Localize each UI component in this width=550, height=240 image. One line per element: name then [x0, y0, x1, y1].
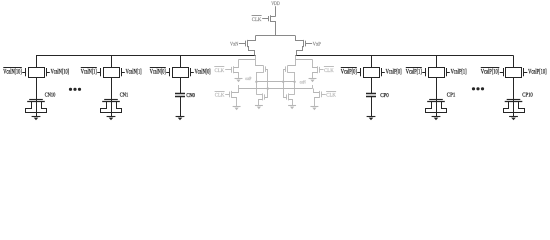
- label outP: [245, 76, 251, 82]
- transistor M0 (PMOS tail, gate CLKb): [262, 15, 276, 22]
- svg-text:VcalN[0]: VcalN[0]: [150, 68, 166, 75]
- wire right calibration bus (node DiP): [295, 55, 513, 57]
- label CLKb (tail gate): [252, 16, 262, 24]
- MOS capacitor CN10: [26, 77, 47, 116]
- svg-text:VDD: VDD: [271, 1, 280, 7]
- ground under CP1: [432, 117, 441, 121]
- svg-text:CN10: CN10: [45, 93, 56, 99]
- ground under CN0: [176, 117, 185, 121]
- wire VDD to tail transistor: [275, 6, 277, 16]
- label VcalN[10]: [51, 68, 70, 75]
- wire cross-couple upper (outP): [256, 81, 294, 83]
- label /VcalP[0]: [341, 68, 357, 76]
- label VxN: [230, 41, 238, 47]
- svg-text:CLK: CLK: [252, 17, 262, 23]
- ground under CN1: [107, 117, 116, 121]
- label CP10: [522, 93, 533, 99]
- wire rail to M1 source: [248, 36, 256, 41]
- label VcalP[1]: [451, 68, 467, 75]
- wire left drain rail (outP): [256, 72, 258, 95]
- wire M1 drain to left bus: [248, 47, 255, 56]
- svg-text:CP10: CP10: [522, 93, 533, 99]
- wire tail drain to source rail: [275, 21, 277, 35]
- stub at SW4 drain: [312, 85, 314, 89]
- calibration switch cell SP1: [422, 56, 450, 78]
- MOS capacitor CP1: [426, 77, 447, 116]
- wire left node to reset switch SW1: [239, 59, 256, 61]
- transistor SW2 (reset, left lower): [225, 89, 238, 107]
- label CN0: [186, 93, 195, 99]
- ground under CP0: [367, 117, 376, 121]
- label VcalN[1]: [126, 68, 142, 75]
- circuit schematic: comparator with calibration capacitor banks: [0, 0, 550, 125]
- svg-text:VcalN[1]: VcalN[1]: [126, 68, 142, 75]
- wire M2 drain to right bus: [297, 47, 304, 56]
- svg-text:outN: outN: [300, 80, 307, 86]
- calibration switch cell SP0: [357, 56, 385, 78]
- wire right bus node down to latch: [288, 56, 296, 66]
- wire input-pair source rail: [256, 35, 296, 37]
- wire right gate line: [284, 70, 287, 98]
- svg-text:VcalN[1]: VcalN[1]: [81, 68, 97, 75]
- transistor M6 (latch NMOS right): [287, 93, 295, 105]
- ellipsis dots (more P cells): [472, 87, 484, 90]
- label /VcalN[1]: [81, 68, 97, 76]
- label /VcalN[0]: [150, 68, 166, 76]
- label CP1: [447, 93, 456, 99]
- transistor M5 (latch NMOS left): [256, 93, 264, 105]
- svg-text:CLK: CLK: [326, 93, 336, 99]
- svg-text:VcalP[10]: VcalP[10]: [528, 68, 547, 75]
- label /VcalN[10] (inverted control): [3, 68, 22, 76]
- wire right node to reset switch SW3: [296, 59, 313, 61]
- label /VcalP[1]: [406, 68, 422, 76]
- wire right drain rail (outN): [294, 72, 296, 95]
- label CLKb (SW4 gate): [326, 92, 336, 99]
- svg-text:VcalP[10]: VcalP[10]: [481, 68, 500, 75]
- MOS capacitor CN1: [101, 77, 122, 116]
- ground under CP10: [509, 117, 518, 121]
- svg-text:outP: outP: [245, 76, 251, 82]
- capacitor CP0: [366, 77, 376, 116]
- svg-text:VxN: VxN: [230, 41, 238, 47]
- ground under SW3: [309, 79, 317, 83]
- MOS capacitor CP10: [504, 77, 525, 116]
- transistor SW4 (reset, right lower): [314, 89, 326, 107]
- wire left calibration bus (node DiN): [36, 55, 256, 57]
- label VxP: [313, 41, 321, 47]
- label VcalN[0]: [195, 68, 211, 75]
- svg-text:CLK: CLK: [324, 68, 334, 74]
- power VDD label: [271, 1, 280, 7]
- calibration switch cell SN1: [97, 56, 125, 78]
- transistor M4 (latch PMOS right): [286, 66, 295, 73]
- label CLKb (SW2 gate): [215, 92, 225, 99]
- label /VcalP[10]: [481, 68, 500, 76]
- ground under M5: [255, 106, 263, 110]
- svg-text:CLK: CLK: [215, 93, 225, 99]
- ground under SW2: [233, 107, 241, 111]
- wire left gate line: [265, 70, 268, 98]
- svg-text:VcalP[1]: VcalP[1]: [406, 68, 422, 75]
- ground under SW4: [310, 107, 318, 111]
- label VcalP[0]: [386, 68, 402, 75]
- ellipsis dots (more N cells): [69, 88, 81, 91]
- svg-text:VcalN[10]: VcalN[10]: [51, 68, 70, 75]
- svg-text:VcalN[10]: VcalN[10]: [3, 68, 22, 75]
- transistor SW3 (reset, right upper): [313, 60, 324, 79]
- junction dots upper cross line: [255, 81, 296, 83]
- wire left bus node down to latch: [256, 56, 264, 66]
- calibration switch cell SN0: [166, 56, 194, 78]
- calibration switch cell SP10: [500, 56, 528, 78]
- transistor M2 (input, gate VxP): [304, 40, 313, 47]
- transistor M3 (latch PMOS left): [256, 66, 265, 73]
- svg-text:VxP: VxP: [313, 41, 321, 47]
- label CP0: [380, 93, 389, 99]
- junction dot lower cross line: [267, 87, 269, 89]
- svg-text:CP0: CP0: [380, 93, 389, 99]
- svg-text:VcalN[0]: VcalN[0]: [195, 68, 211, 75]
- svg-text:VcalP[1]: VcalP[1]: [451, 68, 467, 75]
- svg-text:CP1: CP1: [447, 93, 456, 99]
- svg-text:VcalP[0]: VcalP[0]: [341, 68, 357, 75]
- wire cross-couple lower (outN): [239, 88, 313, 90]
- label CN1: [120, 93, 129, 99]
- svg-text:CN0: CN0: [186, 93, 195, 99]
- svg-text:CN1: CN1: [120, 93, 129, 99]
- svg-text:VcalP[0]: VcalP[0]: [386, 68, 402, 75]
- transistor SW1 (reset, left upper): [225, 60, 238, 79]
- label CLKb (SW3 gate): [324, 67, 334, 74]
- stub at SW2 drain: [238, 85, 240, 89]
- calibration switch cell SN10: [22, 56, 50, 78]
- capacitor CN0: [175, 77, 185, 116]
- label CLKb (SW1 gate): [214, 67, 224, 74]
- wire rail to M2 source: [296, 36, 304, 41]
- transistor M1 (input, gate VxN): [239, 40, 248, 47]
- ground under SW1: [235, 79, 243, 83]
- label outN: [300, 80, 307, 86]
- svg-text:CLK: CLK: [215, 68, 225, 74]
- label CN10: [45, 93, 56, 99]
- ground under M6: [288, 106, 296, 110]
- ground under CN10: [32, 117, 41, 121]
- label VcalP[10]: [528, 68, 547, 75]
